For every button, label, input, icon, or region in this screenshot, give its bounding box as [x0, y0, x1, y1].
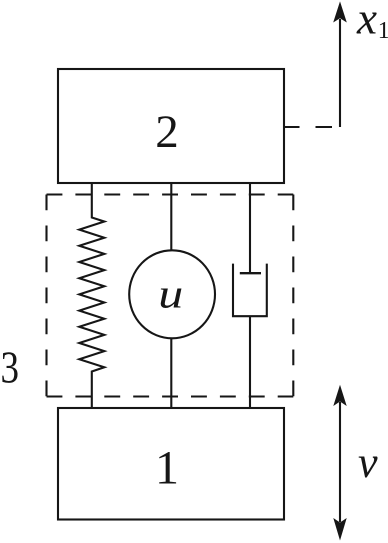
- dashed subsystem box 3 left edge: [45, 195, 47, 397]
- wire actuator bottom lead: [170, 339, 172, 408]
- arrow x1 shaft: [339, 19, 341, 127]
- svg-text:x: x: [356, 0, 377, 43]
- dashed subsystem box 3 bottom edge: [47, 395, 294, 397]
- arrow v bottom head: [333, 518, 346, 541]
- dashed subsystem box 3 right edge: [292, 195, 294, 397]
- svg-text:3: 3: [0, 342, 19, 393]
- svg-text:1: 1: [378, 18, 388, 44]
- svg-text:u: u: [158, 270, 183, 316]
- arrow v shaft: [339, 402, 341, 522]
- label v: [358, 438, 378, 487]
- damper piston plate: [240, 272, 261, 274]
- label u: [158, 270, 183, 316]
- label 3: [0, 342, 19, 393]
- arrow v top head: [333, 385, 346, 406]
- svg-text:v: v: [358, 438, 378, 487]
- damper cylinder cup: [233, 264, 267, 317]
- mass block 1: [58, 408, 284, 520]
- dashed link from mass 2 to x1 arrow: [283, 126, 340, 128]
- wire spring top lead and spring K: [79, 183, 104, 408]
- svg-text:2: 2: [155, 106, 179, 158]
- wire damper piston rod top: [249, 183, 251, 273]
- actuator U circle: [129, 250, 215, 338]
- svg-text:1: 1: [155, 442, 179, 495]
- mass block 2: [58, 69, 284, 183]
- dashed subsystem box 3 top edge: [47, 193, 294, 195]
- label 2: [155, 106, 179, 158]
- label x1: [356, 0, 388, 44]
- label 1: [155, 442, 179, 495]
- wire actuator top lead: [170, 183, 172, 250]
- arrow x1 head: [333, 1, 347, 22]
- wire damper rod bottom: [249, 316, 251, 408]
